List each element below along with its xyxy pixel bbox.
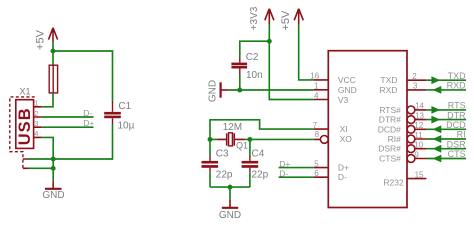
svg-text:2: 2 — [412, 72, 417, 81]
svg-text:10n: 10n — [246, 70, 263, 81]
svg-text:5: 5 — [314, 159, 319, 168]
svg-text:TXD: TXD — [448, 71, 467, 81]
wire +3V3 to C2 top — [240, 41, 269, 56]
svg-text:DCD: DCD — [446, 120, 466, 130]
svg-text:D-: D- — [338, 172, 347, 182]
svg-text:+5V: +5V — [280, 10, 292, 31]
svg-text:4: 4 — [34, 129, 38, 138]
wire CTS — [426, 158, 466, 160]
wire D+ from USB pin 3 — [42, 126, 94, 128]
wire shield pin a — [29, 158, 54, 160]
svg-text:GND: GND — [42, 190, 64, 201]
capacitor C4 — [242, 139, 259, 187]
svg-text:10: 10 — [414, 141, 423, 150]
svg-text:8: 8 — [315, 130, 320, 139]
node C2/GND junction — [237, 88, 242, 93]
IC body — [328, 51, 407, 208]
node crystal right junction — [247, 137, 252, 142]
wire C2 bottom to GND row — [239, 75, 241, 90]
svg-text:C3: C3 — [216, 149, 229, 160]
svg-text:15: 15 — [415, 170, 424, 179]
node +5V junction — [51, 49, 56, 54]
connector X1 pin stubs — [34, 107, 42, 138]
IC right pin stubs plain — [407, 80, 426, 178]
svg-text:DSR: DSR — [447, 139, 467, 149]
IC left pin stubs — [314, 80, 329, 177]
svg-text:D+: D+ — [338, 163, 349, 173]
wire DTR — [426, 119, 466, 121]
svg-text:XO: XO — [340, 134, 353, 144]
svg-text:X1: X1 — [20, 87, 31, 97]
svg-text:3: 3 — [34, 119, 38, 128]
wire +5V down to fuse — [52, 51, 54, 65]
connector X1 body — [16, 100, 34, 149]
svg-text:22p: 22p — [252, 170, 269, 181]
svg-text:R232: R232 — [383, 178, 404, 188]
svg-text:12: 12 — [414, 121, 423, 130]
svg-text:11: 11 — [414, 131, 423, 140]
fuse F1 — [49, 65, 57, 93]
IC left pin names — [338, 75, 357, 182]
svg-text:D-: D- — [83, 108, 92, 118]
supply +5V (left) symbol — [49, 28, 58, 51]
node +3V3 junction — [267, 39, 272, 44]
svg-text:RXD: RXD — [379, 85, 397, 95]
IC right pin stubs after bubbles — [415, 110, 427, 159]
ground GND (mid) symbol — [222, 200, 238, 208]
svg-text:TXD: TXD — [380, 75, 397, 85]
svg-text:C1: C1 — [118, 101, 131, 112]
svg-text:22p: 22p — [216, 170, 233, 181]
svg-text:Q1: Q1 — [236, 141, 248, 151]
svg-text:6: 6 — [314, 169, 319, 178]
arrow DTR (out) — [431, 116, 440, 124]
svg-text:C4: C4 — [252, 149, 265, 160]
svg-text:USB: USB — [16, 107, 34, 145]
svg-text:RTS: RTS — [448, 101, 466, 111]
svg-text:DCD#: DCD# — [378, 124, 401, 134]
svg-text:V3: V3 — [338, 95, 349, 105]
wire DCD — [426, 128, 466, 130]
supply +3V3 symbol — [265, 9, 274, 42]
svg-text:DTR: DTR — [447, 110, 466, 120]
wire USB pin 4 to GND rail — [42, 137, 53, 181]
IC right pin names — [378, 75, 401, 163]
wire D+ to chip pin 5 — [279, 167, 314, 169]
wire +5V horizontal to C1 column — [53, 51, 113, 101]
svg-text:1: 1 — [314, 82, 319, 91]
ground GND (mid-left) symbol — [221, 82, 229, 97]
wire RXD — [426, 89, 466, 91]
svg-text:VCC: VCC — [338, 75, 356, 85]
arrow RXD (in) — [433, 86, 442, 94]
svg-text:12M: 12M — [223, 122, 242, 133]
svg-text:GND: GND — [208, 80, 219, 102]
svg-text:DTR#: DTR# — [379, 115, 401, 125]
svg-text:RTS#: RTS# — [379, 105, 401, 115]
wire DSR — [426, 148, 466, 150]
node crystal left junction — [208, 137, 213, 142]
svg-text:4: 4 — [314, 91, 319, 100]
wire XO net — [250, 138, 314, 140]
wire junction to GND (mid) — [229, 187, 231, 199]
wire TXD — [426, 79, 466, 81]
svg-text:16: 16 — [310, 72, 319, 81]
svg-text:RI#: RI# — [388, 134, 402, 144]
svg-text:XI: XI — [340, 124, 348, 134]
wire crystal caps bottom rail — [210, 186, 250, 188]
IC right inversion bubbles — [407, 106, 415, 162]
svg-text:D+: D+ — [83, 118, 94, 128]
IC right pin numbers — [412, 72, 424, 179]
connector X1 shield (dashed) — [10, 97, 35, 169]
wire RTS — [426, 109, 466, 111]
capacitor C1 — [104, 101, 121, 125]
svg-text:13: 13 — [415, 111, 424, 120]
wire shield pin b — [29, 167, 54, 169]
arrow CTS (in) — [433, 155, 442, 163]
capacitor C2 — [231, 57, 247, 76]
supply +5V (mid) symbol — [294, 9, 314, 80]
svg-text:7: 7 — [313, 121, 318, 130]
connector X1 shield pin stubs — [23, 159, 29, 168]
arrow RTS (out) — [431, 106, 440, 114]
svg-text:RXD: RXD — [447, 81, 467, 91]
svg-text:DSR#: DSR# — [378, 144, 401, 154]
svg-text:CTS: CTS — [448, 149, 466, 159]
svg-text:+5V: +5V — [35, 29, 47, 50]
svg-text:C2: C2 — [246, 52, 259, 63]
wire RI — [426, 138, 466, 140]
IC pin 8 inversion bubble — [320, 136, 328, 144]
arrow DSR (in) — [433, 145, 442, 153]
wire D- from USB pin 2 — [42, 116, 94, 118]
svg-text:CTS#: CTS# — [379, 154, 401, 164]
ground GND (left) — [45, 181, 62, 189]
connector X1 pin numbers — [34, 99, 38, 139]
IC left pin numbers — [310, 72, 319, 178]
wire GND row to chip pin 1 — [228, 89, 313, 91]
svg-text:RI: RI — [457, 130, 466, 140]
svg-text:3: 3 — [413, 82, 418, 91]
svg-text:2: 2 — [34, 109, 38, 118]
crystal Q1 — [210, 133, 250, 146]
svg-text:9: 9 — [414, 150, 419, 159]
node GND junction a — [51, 157, 56, 162]
svg-text:GND: GND — [219, 210, 241, 221]
svg-text:10µ: 10µ — [118, 121, 135, 132]
node GND junction b — [51, 166, 56, 171]
arrow TXD (out) — [431, 76, 440, 84]
wire +3V3 down to V3 pin — [269, 41, 314, 99]
wire fuse to USB pin 1 — [42, 93, 53, 107]
wire XI net — [210, 120, 314, 140]
arrow RI (in) — [433, 135, 442, 143]
svg-text:+3V3: +3V3 — [249, 6, 260, 30]
svg-text:GND: GND — [338, 85, 357, 95]
svg-text:1: 1 — [34, 99, 38, 108]
wire C1 bottom to GND rail — [53, 125, 112, 160]
node bottom rail junction — [228, 185, 233, 190]
capacitor C3 — [202, 139, 219, 187]
svg-text:14: 14 — [415, 102, 424, 111]
wire D- to chip pin 6 — [279, 176, 314, 178]
arrow DCD (in) — [433, 125, 442, 133]
